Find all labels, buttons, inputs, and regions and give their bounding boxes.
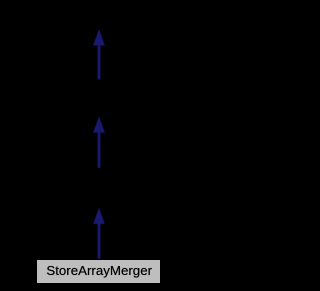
shaft halo — [97, 132, 101, 168]
class box StoreArrayMerger — [36, 259, 161, 284]
shaft halo — [97, 223, 101, 259]
inheritance arrow 2 shaft — [98, 132, 100, 168]
inheritance arrow 3 shaft — [98, 223, 100, 259]
head halo — [93, 28, 106, 46]
inheritance arrow 1 head — [93, 29, 104, 45]
inheritance arrow 3 head — [93, 208, 104, 224]
shaft halo — [97, 45, 101, 80]
inheritance arrow 1 shaft — [98, 45, 100, 80]
head halo — [93, 116, 106, 133]
head halo — [93, 207, 106, 224]
inheritance arrow 2 head — [93, 117, 104, 133]
